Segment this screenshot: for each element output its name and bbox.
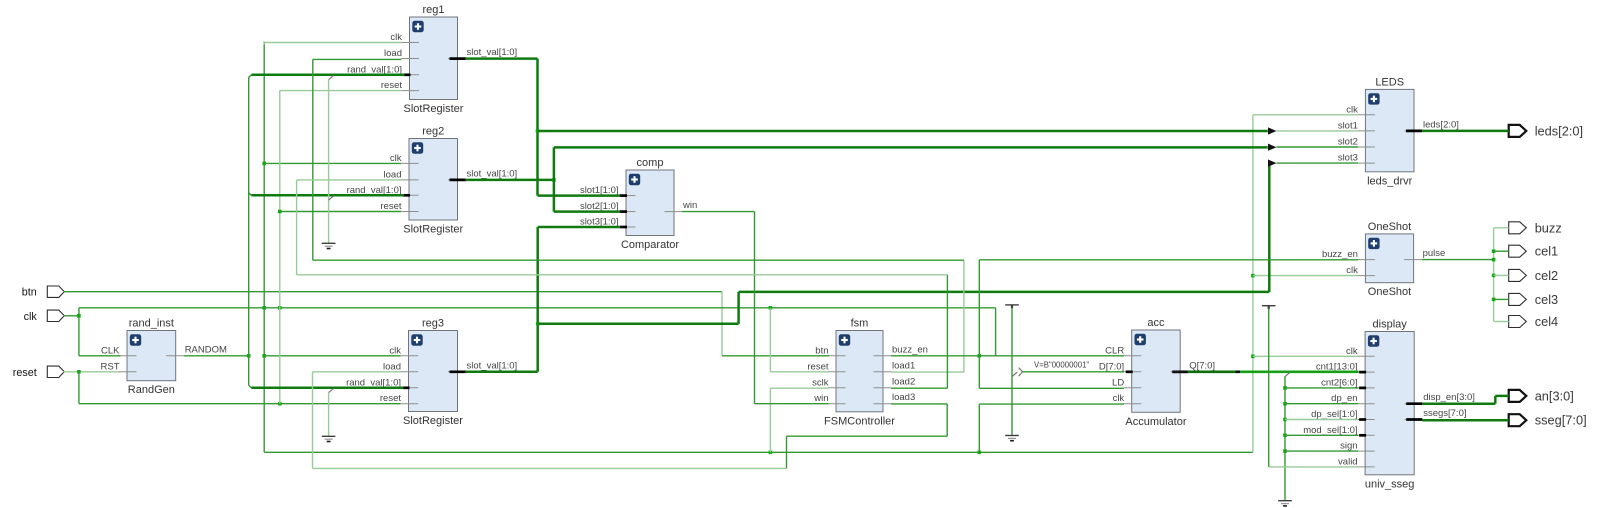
svg-text:comp: comp <box>637 157 664 169</box>
svg-text:V=B"00000001": V=B"00000001" <box>1034 361 1089 370</box>
pin slot1[1:0] of comp <box>618 195 636 197</box>
pin load of reg3 <box>401 371 419 373</box>
wire net win <box>682 212 829 404</box>
svg-text:clk: clk <box>390 153 402 164</box>
svg-text:OneShot: OneShot <box>1368 221 1411 233</box>
svg-text:cel1: cel1 <box>1535 244 1558 259</box>
pin reset of reg3 <box>401 403 419 405</box>
junction clk reg2 <box>262 162 266 166</box>
module OneShot (OneShot) <box>1322 221 1445 298</box>
module reg3 (SlotRegister) <box>346 318 517 428</box>
wire clk to display <box>1253 355 1358 357</box>
tie net rand_val tap to ground (reg3) <box>329 388 334 436</box>
svg-text:SlotRegister: SlotRegister <box>403 224 463 236</box>
wire clk to OneShot <box>1253 275 1358 277</box>
junction clk at port <box>77 314 81 318</box>
wire net reset <box>64 91 402 406</box>
pin clk of acc <box>1124 403 1142 405</box>
pin Q[7:0] of acc <box>1171 371 1189 373</box>
bus rand_val to reg2 <box>251 194 404 197</box>
wire net btn <box>64 292 830 356</box>
svg-text:slot3: slot3 <box>1338 153 1358 164</box>
pin win of comp <box>665 211 683 213</box>
pin slot3 of LEDS <box>1357 162 1375 164</box>
module reg1 (SlotRegister) <box>347 4 517 115</box>
svg-text:RANDOM: RANDOM <box>185 344 227 355</box>
pin load1 of fsm <box>874 371 892 373</box>
arrow slot1 into LEDS <box>1268 127 1277 134</box>
module LEDS (leds_drvr) <box>1338 76 1459 187</box>
svg-text:load: load <box>383 361 401 372</box>
pin ssegs[7:0] of display <box>1405 419 1423 421</box>
wire clk drop to acc CLR <box>995 308 997 356</box>
wire reset to reg2 <box>280 211 401 213</box>
svg-text:ssegs[7:0]: ssegs[7:0] <box>1423 408 1466 419</box>
output port cel3 <box>1509 292 1558 307</box>
pin clk of reg3 <box>401 355 419 357</box>
bus net disp_en to an port <box>1422 396 1509 404</box>
junction rand column <box>247 354 251 358</box>
wire clk to RandGen CLK <box>79 355 121 357</box>
wire clk to fsm sclk <box>770 387 828 389</box>
pin clk of reg2 <box>401 162 419 164</box>
svg-text:buzz: buzz <box>1535 220 1562 235</box>
junction pulse <box>1492 258 1496 262</box>
pin win of fsm <box>828 403 846 405</box>
junction at reset column crossing <box>278 306 282 310</box>
pin dp_sel[1:0] of display <box>1357 419 1375 421</box>
svg-text:win: win <box>682 200 697 211</box>
pin reset of fsm <box>828 371 846 373</box>
pin clk of LEDS <box>1357 114 1375 116</box>
junction cel3 <box>1492 298 1496 302</box>
tie net rand_val tap to ground (reg1+reg2) <box>329 75 334 243</box>
wire net load3 <box>313 372 948 469</box>
pin D[7:0] of acc <box>1124 371 1142 373</box>
pin CLR of acc <box>1124 355 1142 357</box>
svg-text:leds_drvr: leds_drvr <box>1367 175 1413 187</box>
bus slot2 to LEDS <box>554 146 1268 149</box>
svg-text:acc: acc <box>1147 317 1165 329</box>
bus net slot_val3 <box>466 160 1359 372</box>
input port clk <box>24 310 65 323</box>
wire reset to reg1 <box>280 90 402 92</box>
junction mod_sel <box>1283 434 1287 438</box>
output port sseg[7:0] <box>1509 413 1587 428</box>
arrow slot3 into LEDS <box>1268 160 1277 167</box>
svg-text:slot1: slot1 <box>1338 120 1358 131</box>
junction clk display <box>1251 355 1255 359</box>
bus slot1 to LEDS <box>538 130 1268 133</box>
corner bevel to reg1 rand_val <box>249 75 252 78</box>
svg-text:display: display <box>1373 319 1408 331</box>
pin disp_en[3:0] of display <box>1405 403 1423 405</box>
svg-text:CLR: CLR <box>1105 345 1124 356</box>
module comp (Comparator) <box>580 157 697 251</box>
junction dp_sel <box>1283 418 1287 422</box>
junction cnt2 <box>1283 386 1287 390</box>
junction dp_en <box>1283 402 1287 406</box>
pin valid of display <box>1357 466 1375 468</box>
pin load2 of fsm <box>874 387 892 389</box>
pin reset of reg1 <box>402 90 420 92</box>
pin sclk of fsm <box>828 387 846 389</box>
svg-text:mod_sel[1:0]: mod_sel[1:0] <box>1303 425 1357 436</box>
svg-text:load2: load2 <box>892 376 915 387</box>
svg-text:dp_sel[1:0]: dp_sel[1:0] <box>1311 409 1357 420</box>
svg-text:btn: btn <box>22 287 37 299</box>
ground symbol below reg3 <box>322 436 336 441</box>
svg-text:sseg[7:0]: sseg[7:0] <box>1535 413 1587 428</box>
junction clk / fsm reset drop <box>769 306 773 310</box>
pin clk of reg1 <box>402 42 420 44</box>
svg-text:sign: sign <box>1340 441 1357 452</box>
output port leds[2:0] <box>1509 123 1583 138</box>
pin slot3[1:0] of comp <box>618 226 636 228</box>
junction slot1 <box>536 129 540 133</box>
junction cel2 <box>1492 274 1496 278</box>
bus net leds to port <box>1422 130 1509 133</box>
svg-text:cel4: cel4 <box>1535 314 1558 329</box>
svg-text:RST: RST <box>101 361 120 372</box>
ground symbol below display <box>1278 501 1292 506</box>
svg-text:Comparator: Comparator <box>621 239 679 251</box>
svg-text:CLK: CLK <box>101 345 120 356</box>
pin rand_val[1:0] of reg1 <box>402 74 420 76</box>
constant net V=B"00000001" into acc D <box>1012 308 1124 436</box>
svg-text:clk: clk <box>390 32 402 43</box>
svg-text:disp_en[3:0]: disp_en[3:0] <box>1423 392 1475 403</box>
arrow slot2 into LEDS <box>1268 144 1277 151</box>
corner bevel to reg2 rand_val <box>249 193 252 196</box>
wire net load1 <box>313 59 964 372</box>
ground symbol for constant <box>1005 436 1019 441</box>
pin clk of display <box>1357 355 1375 357</box>
input port reset <box>13 366 65 379</box>
junction clk rail / sclk riser <box>769 451 773 455</box>
wire net load2 <box>297 180 948 388</box>
bus slot2 to comp <box>554 210 620 213</box>
svg-text:buzz_en: buzz_en <box>1322 249 1358 260</box>
svg-text:clk: clk <box>1346 104 1358 115</box>
wire reset rail to reg3 <box>79 403 401 405</box>
bus rand_val to reg3 <box>251 387 403 390</box>
pin cnt1[13:0] of display <box>1357 371 1375 373</box>
svg-text:reset: reset <box>380 393 401 404</box>
svg-text:rand_inst: rand_inst <box>129 318 174 330</box>
pin reset of reg2 <box>401 211 419 213</box>
junction sign <box>1283 449 1287 453</box>
junction cel1 <box>1492 249 1496 253</box>
svg-text:load1: load1 <box>892 360 915 371</box>
module display (univ_sseg) <box>1303 319 1475 491</box>
pin buzz_en of fsm <box>874 355 892 357</box>
svg-text:slot_val[1:0]: slot_val[1:0] <box>467 47 518 58</box>
junction reset reg2 <box>278 210 282 214</box>
svg-text:win: win <box>813 393 828 404</box>
wire net buzz_en <box>891 260 1358 389</box>
output port an[3:0] <box>1509 388 1574 403</box>
svg-text:slot_val[1:0]: slot_val[1:0] <box>467 168 518 179</box>
wire net RANDOM / rand_val <box>184 75 405 388</box>
pin mod_sel[1:0] of display <box>1357 434 1375 436</box>
wire clk to reg1 <box>264 42 401 44</box>
output port cel1 <box>1509 244 1558 259</box>
svg-text:clk: clk <box>24 311 38 323</box>
module rand_inst (RandGen) <box>101 318 228 397</box>
svg-text:LD: LD <box>1112 377 1124 388</box>
bus slot3 jog toward LEDS <box>538 323 739 326</box>
pin slot_val[1:0] of reg2 <box>448 179 466 181</box>
pin slot_val[1:0] of reg3 <box>448 371 466 373</box>
svg-text:SlotRegister: SlotRegister <box>403 415 463 427</box>
module fsm (FSMController) <box>807 318 928 428</box>
pin clk of OneShot <box>1357 275 1375 277</box>
wire clk to LEDS <box>1253 114 1358 116</box>
pin pulse of OneShot <box>1404 259 1422 261</box>
svg-text:cel3: cel3 <box>1535 292 1558 307</box>
svg-text:fsm: fsm <box>851 318 869 330</box>
svg-text:clk: clk <box>1113 393 1125 404</box>
pin cnt2[6:0] of display <box>1357 387 1375 389</box>
junction clk OneShot <box>1251 274 1255 278</box>
svg-text:univ_sseg: univ_sseg <box>1365 478 1415 490</box>
bus rand_val to reg1 <box>251 74 404 77</box>
junction clk reg3 <box>262 354 266 358</box>
pin leds[2:0] of LEDS <box>1405 130 1423 132</box>
wire clk bottom rail <box>264 451 1253 453</box>
pin rand_val[1:0] of reg3 <box>401 387 419 389</box>
pin slot1 of LEDS <box>1357 130 1375 132</box>
svg-text:D[7:0]: D[7:0] <box>1099 361 1124 372</box>
junction buzz_en <box>978 354 982 358</box>
bus net Q to display cnt1 <box>1173 370 1359 373</box>
tie net valid to power <box>1269 309 1358 467</box>
bus net slot_val1 <box>466 59 1359 196</box>
wire buzz_en to acc LD <box>978 356 980 389</box>
module reg2 (SlotRegister) <box>347 126 518 236</box>
pin btn of fsm <box>828 355 846 357</box>
svg-text:an[3:0]: an[3:0] <box>1535 388 1574 403</box>
junction slot2 <box>552 178 556 182</box>
pin rand_val[1:0] of reg2 <box>401 194 419 196</box>
pin load3 of fsm <box>874 403 892 405</box>
input port btn <box>22 286 65 299</box>
svg-text:Accumulator: Accumulator <box>1125 416 1186 428</box>
bus net ssegs to sseg port <box>1422 419 1509 422</box>
wire buzz_en to OneShot <box>979 259 1358 261</box>
pin load of reg2 <box>401 179 419 181</box>
pin sign of display <box>1357 450 1375 452</box>
wire clk to acc clk <box>979 403 1124 405</box>
pin RST of rand_inst <box>119 371 137 373</box>
module acc (Accumulator) <box>1099 317 1215 428</box>
svg-text:clk: clk <box>1346 346 1358 357</box>
svg-text:OneShot: OneShot <box>1368 286 1411 298</box>
pin CLK of rand_inst <box>119 355 137 357</box>
svg-text:valid: valid <box>1338 456 1358 467</box>
svg-text:cnt2[6:0]: cnt2[6:0] <box>1321 377 1357 388</box>
svg-text:load: load <box>384 48 402 59</box>
svg-text:reset: reset <box>807 361 828 372</box>
pin slot_val[1:0] of reg1 <box>448 58 466 60</box>
svg-text:slot_val[1:0]: slot_val[1:0] <box>467 360 518 371</box>
power symbol for valid <box>1262 306 1276 309</box>
bus slot1 to comp <box>538 194 621 197</box>
svg-text:reset: reset <box>381 80 402 91</box>
pin LD of acc <box>1124 387 1142 389</box>
pin load of reg1 <box>402 58 420 60</box>
junction slot3 <box>536 322 540 326</box>
svg-text:reset: reset <box>13 367 37 379</box>
wire net pulse to output ports <box>1422 228 1509 322</box>
pin buzz_en of OneShot <box>1357 259 1375 261</box>
svg-text:slot2: slot2 <box>1338 137 1358 148</box>
svg-text:cel2: cel2 <box>1535 268 1558 283</box>
bus net slot_val2 <box>466 144 1359 212</box>
junction clk rail / acc clk riser <box>978 451 982 455</box>
wire to fsm reset <box>770 371 828 373</box>
pin slot2 of LEDS <box>1357 146 1375 148</box>
svg-text:load: load <box>384 169 402 180</box>
pin dp_en of display <box>1357 403 1375 405</box>
junction reset riser <box>278 402 282 406</box>
svg-text:Q[7:0]: Q[7:0] <box>1189 360 1215 371</box>
bus slot3 to comp <box>538 226 620 229</box>
power symbol for constant <box>1005 305 1019 308</box>
svg-text:reg3: reg3 <box>422 318 444 330</box>
pin RANDOM of rand_inst <box>166 355 184 357</box>
svg-text:clk: clk <box>1346 265 1358 276</box>
wire clk to reg2 <box>264 162 401 164</box>
output port cel2 <box>1509 268 1558 283</box>
wire net clk <box>64 42 1359 455</box>
ground symbol below reg2 <box>322 243 336 248</box>
svg-text:leds[2:0]: leds[2:0] <box>1423 119 1459 130</box>
svg-text:leds[2:0]: leds[2:0] <box>1535 123 1583 138</box>
pin slot2[1:0] of comp <box>618 211 636 213</box>
junction reset at port <box>77 370 81 374</box>
output port cel4 <box>1509 314 1558 329</box>
svg-text:sclk: sclk <box>812 377 829 388</box>
svg-text:reg1: reg1 <box>422 4 444 16</box>
svg-text:clk: clk <box>389 345 401 356</box>
svg-text:reg2: reg2 <box>422 126 444 138</box>
wire clk to reg3 <box>264 355 400 357</box>
tie net display inputs to ground <box>1283 372 1358 501</box>
svg-text:dp_en: dp_en <box>1331 393 1357 404</box>
svg-text:FSMController: FSMController <box>824 415 895 427</box>
svg-text:load3: load3 <box>892 392 915 403</box>
svg-text:pulse: pulse <box>1423 248 1446 259</box>
svg-text:btn: btn <box>815 345 828 356</box>
corner bevel to reg3 rand_val <box>249 385 252 387</box>
svg-text:reset: reset <box>380 201 401 212</box>
svg-text:RandGen: RandGen <box>128 384 175 396</box>
svg-text:buzz_en: buzz_en <box>892 344 928 355</box>
svg-text:LEDS: LEDS <box>1375 76 1404 88</box>
output port buzz <box>1509 220 1562 235</box>
junction clk column left <box>262 306 266 310</box>
svg-text:SlotRegister: SlotRegister <box>404 103 464 115</box>
wire clk right riser <box>1252 115 1254 453</box>
